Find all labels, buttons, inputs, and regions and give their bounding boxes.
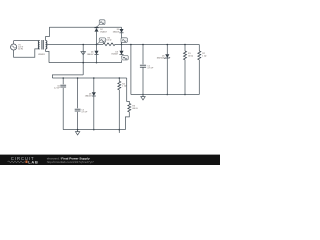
wire C1 to rail D: [142, 67, 144, 94]
ground center tap: [81, 52, 86, 55]
node rail B D6 junction: [93, 77, 95, 79]
node rail D D5 junction: [167, 94, 169, 96]
zener diode D5: [165, 54, 171, 59]
wire rail B to D6: [93, 78, 95, 92]
diode D3: [119, 51, 123, 55]
wire D2 to M1: [96, 32, 98, 45]
node DC+ rail C1 junction: [142, 44, 144, 46]
svg-text:http:∕∕circuitlab.com∕c∕327q7c: http:∕∕circuitlab.com∕c∕327q7cs27yt7: [47, 160, 94, 164]
probe P2: [97, 38, 106, 44]
label R1: [188, 53, 194, 57]
label D4: [87, 52, 95, 56]
wire DC+ rail to D5: [166, 45, 168, 55]
label C6: [54, 85, 61, 89]
resistor R4: [118, 81, 121, 90]
node rail C R4 junction: [119, 129, 121, 131]
svg-text:4.7 mF: 4.7 mF: [81, 112, 88, 114]
footer url text: [47, 160, 94, 164]
label C5: [81, 109, 88, 113]
transformer XFMR1: [38, 40, 47, 50]
wire center tap ground drop: [82, 45, 84, 75]
svg-text:100 Ω: 100 Ω: [106, 40, 112, 42]
resistor R1: [184, 51, 187, 60]
label R4: [122, 83, 127, 87]
node rail C C5 junction: [77, 129, 79, 131]
node DC+ rail V2 junction: [130, 44, 132, 46]
wire DC+ rail end to R2: [198, 45, 200, 52]
wire return line: [52, 75, 83, 78]
label C1: [147, 65, 154, 69]
svg-text:10 kΩ: 10 kΩ: [188, 56, 194, 58]
label D3: [111, 52, 119, 56]
wire rail B to C5: [77, 78, 79, 108]
wire V1 top to transformer primary: [14, 41, 40, 44]
label R2: [202, 53, 207, 57]
wire C6 to rail C: [62, 88, 64, 130]
wire DC+ rail to C1: [142, 45, 144, 65]
svg-text:1 kΩ: 1 kΩ: [202, 56, 207, 58]
wire secondary top to top rail: [46, 27, 50, 40]
svg-text:XFMR1: XFMR1: [38, 54, 46, 56]
capacitor C1: [140, 65, 146, 67]
wire secondary bottom to rail A: [46, 49, 49, 63]
wire R4 to rail C stub: [118, 90, 120, 133]
footer title text: [47, 157, 90, 161]
node M1: [96, 44, 98, 46]
capacitor C5: [75, 109, 81, 111]
wire R2 to rail D end: [198, 60, 200, 95]
CircuitLab logo: [8, 156, 39, 164]
node rail D R1 junction: [184, 94, 186, 96]
wire D3 to rail A: [121, 60, 123, 62]
label R3: [132, 106, 138, 110]
wire rail A: [49, 62, 122, 64]
node rail C D6 junction: [93, 129, 95, 131]
diode D1: [119, 27, 123, 33]
footer bar: [0, 155, 220, 165]
wire rail C: [63, 129, 125, 131]
wire rail B end down to R3: [127, 78, 130, 103]
svg-text:LAB: LAB: [28, 159, 38, 164]
node top rail D2 junction: [96, 27, 98, 29]
label R5: [106, 38, 112, 42]
svg-text:1N4007: 1N4007: [111, 54, 118, 56]
wire R1 to rail D: [184, 60, 186, 95]
label D5: [157, 55, 166, 59]
svg-text:4.7 mF: 4.7 mF: [147, 68, 154, 70]
node rail B C6 junction: [62, 77, 64, 79]
wire center tap to node M1: [46, 44, 97, 46]
resistor R3: [128, 103, 131, 112]
wire M2 rail down to rail D: [130, 45, 132, 95]
node rail B R4 junction: [119, 77, 121, 79]
wire rail B: [52, 77, 126, 79]
label D2: [100, 29, 107, 33]
diode D2: [94, 27, 98, 31]
node M2: [121, 44, 123, 46]
wire D5 to rail D: [166, 58, 168, 95]
svg-text:1N4007: 1N4007: [113, 31, 120, 33]
ground rail C: [75, 130, 79, 135]
resistor R5: [97, 43, 122, 46]
capacitor C6: [60, 85, 66, 87]
label XFMR1: [38, 54, 46, 56]
svg-text:60 Hz: 60 Hz: [18, 49, 23, 51]
label D6: [85, 93, 93, 97]
wire D1 to M2: [121, 33, 123, 45]
probe P1: [97, 20, 105, 27]
svg-text:1N4007: 1N4007: [100, 31, 107, 33]
node rail D C1 junction: [142, 94, 144, 96]
node rail A ground-drop junction: [82, 62, 84, 64]
diode D6: [92, 92, 96, 96]
wire DC+ rail to R1: [184, 45, 186, 52]
svg-text:1N4742A: 1N4742A: [157, 57, 166, 60]
wire D4 to rail A: [96, 55, 98, 63]
wire M1 to D4: [96, 45, 98, 51]
probe P4: [122, 56, 129, 61]
node center tap ground junction: [82, 44, 84, 46]
wire R3 to rail C end: [125, 112, 129, 130]
svg-text:680 Ω: 680 Ω: [132, 108, 138, 110]
node DC+ rail R1 junction: [184, 44, 186, 46]
wire DC+ rail: [122, 44, 200, 46]
label D1: [113, 29, 121, 33]
wire rail B to R4: [118, 78, 120, 81]
label V1: [18, 44, 24, 50]
node rail A D4 junction: [96, 62, 98, 64]
wire V1 bottom to transformer primary: [14, 49, 40, 57]
wire rail B to C6: [62, 78, 64, 84]
wire C5 to rail C: [77, 112, 79, 130]
probe P3: [121, 38, 127, 44]
node rail B C5 junction: [77, 77, 79, 79]
svg-text:1N4007: 1N4007: [85, 96, 92, 98]
resistor R2: [198, 51, 201, 60]
svg-text:2.2 mF: 2.2 mF: [54, 88, 61, 90]
AC voltage source V1: [11, 44, 17, 50]
wire M2 to D3: [121, 45, 123, 51]
svg-text:1 kΩ: 1 kΩ: [122, 86, 127, 88]
wire D6 to rail C: [93, 96, 95, 130]
ground rail D: [141, 95, 146, 101]
diode D4: [94, 51, 98, 55]
wire top rail: [49, 26, 121, 28]
node DC+ rail D5 junction: [167, 44, 169, 46]
svg-text:1N4007: 1N4007: [87, 54, 94, 56]
wire rail D: [131, 94, 199, 96]
